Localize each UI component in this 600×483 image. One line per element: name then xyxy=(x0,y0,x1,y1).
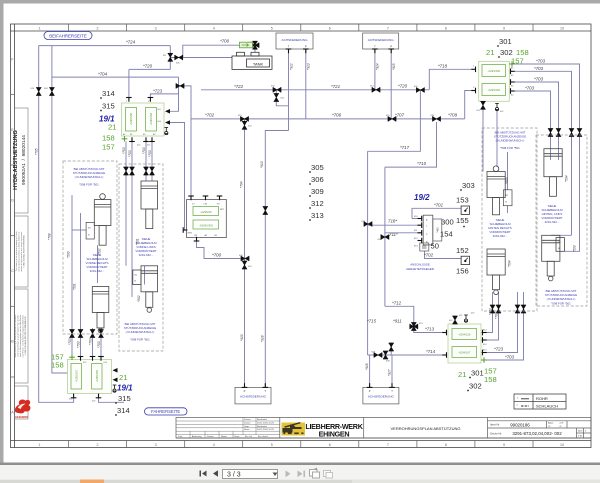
svg-text:*501: *501 xyxy=(73,283,77,290)
svg-text:156: 156 xyxy=(456,267,469,276)
svg-text:1: 1 xyxy=(39,443,41,447)
FAHRERSEITE label xyxy=(145,408,188,415)
label dots xyxy=(100,45,500,416)
title block table xyxy=(176,418,591,439)
valve block V1 top-left (19/1) xyxy=(122,98,171,147)
svg-text:*703: *703 xyxy=(97,341,101,348)
toolbar page combobox xyxy=(223,470,278,479)
fitting 608b on wire 711 xyxy=(381,234,389,239)
svg-text:3291-632...: 3291-632... xyxy=(545,220,560,224)
svg-text:*916: *916 xyxy=(365,363,369,370)
svg-text:4: 4 xyxy=(213,443,215,447)
svg-text:ROHR: ROHR xyxy=(536,396,548,401)
wire 700 mid jog from control block xyxy=(197,241,241,259)
wire 700 top xyxy=(183,45,252,57)
svg-text:300: 300 xyxy=(441,218,454,227)
svg-text:19/2: 19/2 xyxy=(414,193,430,202)
svg-text:BEIFAHRERSEITE: BEIFAHRERSEITE xyxy=(49,33,87,38)
wire 710 xyxy=(385,122,437,167)
wire tank return branch xyxy=(170,57,232,59)
wire 724 top xyxy=(39,45,171,47)
svg-text:718*: 718* xyxy=(388,219,397,224)
wire 711 into valve 19/2 xyxy=(385,232,421,234)
svg-text:303: 303 xyxy=(462,181,475,190)
dashed box LM (schiebeholm vorne links) xyxy=(119,164,163,351)
svg-text:*710: *710 xyxy=(417,161,427,166)
wire box LM inner piping xyxy=(125,183,127,266)
svg-text:*720: *720 xyxy=(398,84,408,89)
svg-text:*912: *912 xyxy=(290,63,294,70)
svg-text:3291-632...: 3291-632... xyxy=(139,253,154,257)
green labels xyxy=(51,48,529,384)
wire 712 xyxy=(385,306,414,322)
wire box B inner piping xyxy=(550,149,552,160)
cross fitting on wire 700 xyxy=(251,41,259,49)
svg-text:-A295/158: -A295/158 xyxy=(149,112,153,125)
svg-text:157: 157 xyxy=(511,57,524,66)
rotated wire labels xyxy=(35,63,577,376)
wire box A bottom drops xyxy=(492,292,494,313)
svg-text:9: 9 xyxy=(503,26,505,30)
check valves under box A xyxy=(490,305,495,313)
svg-text:Datum: Datum xyxy=(244,421,251,424)
wire 718 into valve 19/2 xyxy=(368,224,421,226)
wire 723 valve 19/3 B2 xyxy=(481,305,518,353)
check valves row 1 above valve V2 xyxy=(69,330,74,338)
svg-text:Abge.: Abge. xyxy=(548,422,554,425)
svg-text:7: 7 xyxy=(387,26,389,30)
wire stub check valve x391 xyxy=(390,343,392,356)
svg-text:SCHLAUCH: SCHLAUCH xyxy=(536,404,558,409)
svg-text:21: 21 xyxy=(119,373,127,382)
svg-text:+US: +US xyxy=(559,423,564,425)
TANK xyxy=(232,52,272,69)
svg-text:-A294/167: -A294/167 xyxy=(458,351,471,355)
svg-text:*504: *504 xyxy=(565,175,569,182)
fitting 698 on wire 718 xyxy=(364,221,372,226)
wire valve 19/4 B1 right xyxy=(515,71,572,148)
svg-text:3 / 3: 3 / 3 xyxy=(227,472,241,479)
svg-text:Ers. durch: Ers. durch xyxy=(258,435,269,438)
svg-text:155: 155 xyxy=(456,216,469,225)
svg-text:158: 158 xyxy=(102,134,115,143)
cylinder box L lower xyxy=(92,287,109,333)
legend box rohr/schlauch xyxy=(514,394,566,409)
ACHSFEDERUNG box D bottom-right xyxy=(363,383,399,404)
valve block V2 bottom-left (19/1) xyxy=(68,354,118,402)
svg-text:*703: *703 xyxy=(77,341,81,348)
svg-text:*504: *504 xyxy=(508,260,512,267)
svg-text:3291-632...: 3291-632... xyxy=(493,234,508,238)
svg-text:*703: *703 xyxy=(128,150,132,157)
check valve on tank branch xyxy=(175,55,183,60)
svg-text:305: 305 xyxy=(311,163,324,172)
wire valve V1 bottom drops xyxy=(125,142,127,184)
svg-text:P: P xyxy=(369,389,371,393)
wire 709 riser to port P xyxy=(465,91,472,119)
left column fine print box 2 xyxy=(14,314,27,357)
wire port T drop valve V1 xyxy=(128,69,130,97)
svg-text:*598 FÜR *501: *598 FÜR *501 xyxy=(551,302,571,306)
svg-text:Name: Name xyxy=(221,436,228,438)
svg-text:*703: *703 xyxy=(534,77,544,82)
wire 704 drop to valve V1 right side xyxy=(170,77,179,111)
svg-text:*703: *703 xyxy=(525,86,535,91)
svg-text:LIEBHERR: LIEBHERR xyxy=(15,415,28,419)
svg-text:Datum: Datum xyxy=(244,418,251,421)
svg-text:ACHSFEDERUNG: ACHSFEDERUNG xyxy=(368,38,395,42)
svg-text:GERAETETRAEGER: GERAETETRAEGER xyxy=(406,267,434,271)
svg-text:ANSCHLÜSSE: ANSCHLÜSSE xyxy=(410,263,430,267)
fitting pair on wire 700 mid xyxy=(241,256,249,261)
svg-text:990052A1 / 98020144: 990052A1 / 98020144 xyxy=(21,135,27,185)
wire valve V2 bottom stubs xyxy=(99,394,125,403)
wire valve 19/3 B1 xyxy=(481,305,499,340)
wire 920 main vertical xyxy=(244,119,246,388)
wire valve 19/4 A2 right xyxy=(515,91,551,149)
wire 720 left xyxy=(129,68,170,70)
svg-text:6: 6 xyxy=(329,26,331,30)
check valve left inner xyxy=(49,88,54,96)
svg-text:Zeichn-Nr.: Zeichn-Nr. xyxy=(490,431,502,435)
left column title HYDR.ABSTUETZUNG xyxy=(13,130,27,190)
wire 714 line xyxy=(368,354,444,356)
svg-text:158: 158 xyxy=(51,361,64,370)
svg-text:21: 21 xyxy=(486,48,494,57)
toolbar background xyxy=(0,465,600,480)
svg-text:*700: *700 xyxy=(212,253,222,258)
svg-text:3291-873,02,04,002- 002: 3291-873,02,04,002- 002 xyxy=(512,431,562,436)
svg-text:*703: *703 xyxy=(505,355,515,360)
blue annotation box B bottom xyxy=(545,289,577,306)
wire 713 xyxy=(414,331,444,333)
svg-text:Datum: Datum xyxy=(207,435,214,438)
cylinder box B lower xyxy=(542,235,565,281)
wire valve 19/4 bottom drops xyxy=(482,102,484,172)
cylinder box B upper xyxy=(544,149,562,197)
valve 19/2 block xyxy=(414,215,442,247)
wire valve 19/4 B2 right xyxy=(515,82,559,149)
svg-text:301: 301 xyxy=(471,369,484,378)
dashed box A (stützdruckanzeige hinten rechts) xyxy=(482,128,537,311)
ACHSFEDERUNG box B top-right xyxy=(363,33,399,53)
wire box L inner piping xyxy=(71,195,73,360)
wire 912 jog to check valves xyxy=(276,90,288,106)
svg-text:*502: *502 xyxy=(137,295,141,302)
blue bold valve group labels xyxy=(99,115,430,393)
gauge G1 (153/155) xyxy=(461,206,469,214)
svg-text:© LWE 2010 ALL RIGHTS RESERVED: © LWE 2010 ALL RIGHTS RESERVED xyxy=(23,234,26,268)
svg-text:*703: *703 xyxy=(122,147,126,154)
dashed box L (stützdruckanzeige vorne rechts) xyxy=(63,161,117,334)
viewer chrome left strip xyxy=(0,0,4,463)
svg-text:*703: *703 xyxy=(495,312,499,319)
fitting 614 on wire 721 xyxy=(372,87,380,92)
svg-text:3 Bl.: 3 Bl. xyxy=(578,436,583,438)
svg-text:Ident-Nr.: Ident-Nr. xyxy=(490,423,500,427)
fitting 620 on wire 720 xyxy=(417,87,425,92)
svg-text:*703: *703 xyxy=(142,147,146,154)
svg-text:*503: *503 xyxy=(573,245,577,252)
fitting 601 below 600 xyxy=(274,94,279,102)
green hose component on wire 700 xyxy=(240,42,253,48)
svg-text:Urspr.: Urspr. xyxy=(234,435,240,438)
control block U1 middle xyxy=(183,196,226,241)
wire fitting to control block drop xyxy=(183,86,191,198)
svg-text:1: 1 xyxy=(39,26,41,30)
svg-text:*709: *709 xyxy=(448,113,458,118)
scrollbar track xyxy=(0,480,352,483)
svg-text:309: 309 xyxy=(311,187,324,196)
svg-text:306: 306 xyxy=(311,175,324,184)
svg-text:© LWE 2010 ALLE RECHTE VORBEHA: © LWE 2010 ALLE RECHTE VORBEHALTEN xyxy=(24,316,27,355)
svg-text:P: P xyxy=(305,45,307,49)
wire 718 riser xyxy=(429,69,471,90)
wire cross to tank xyxy=(254,45,256,52)
svg-text:*703: *703 xyxy=(489,308,493,315)
svg-text:Bearbeitet: Bearbeitet xyxy=(257,425,267,428)
left column fine print box 1 xyxy=(15,231,26,272)
wire 703 valve 19/3 A2 xyxy=(481,305,524,360)
svg-text:99020186: 99020186 xyxy=(510,422,530,427)
svg-text:Norm: Norm xyxy=(244,428,250,431)
svg-text:*715: *715 xyxy=(367,319,377,324)
wire 913 drop xyxy=(305,49,307,119)
svg-text:*703: *703 xyxy=(89,338,93,345)
blue annotation siehe vorne rechts xyxy=(86,253,109,273)
svg-text:315: 315 xyxy=(102,102,115,111)
svg-text:-A294/160: -A294/160 xyxy=(488,69,501,73)
wire 915 drop xyxy=(390,49,392,119)
svg-text:301: 301 xyxy=(499,37,512,46)
svg-text:314: 314 xyxy=(117,406,130,415)
svg-text:*705: *705 xyxy=(35,148,39,155)
svg-text:*918: *918 xyxy=(261,335,265,342)
toolbar icon snapshot 2 (disabled) xyxy=(324,471,333,479)
svg-text:3291-632...: 3291-632... xyxy=(90,269,105,273)
svg-text:*913: *913 xyxy=(260,161,264,168)
svg-text:*721: *721 xyxy=(331,84,341,89)
wire left outer vertical xyxy=(39,46,74,403)
svg-text:04.11.2010 10:26: 04.11.2010 10:26 xyxy=(257,422,275,424)
svg-text:313: 313 xyxy=(311,211,324,220)
svg-text:*598 FÜR *501: *598 FÜR *501 xyxy=(500,146,520,150)
svg-text:3: 3 xyxy=(155,26,157,30)
svg-text:*701: *701 xyxy=(434,203,444,208)
svg-text:*915: *915 xyxy=(392,63,396,70)
cylinder box A pressure box xyxy=(503,190,512,206)
toolbar button first-page xyxy=(200,470,219,477)
svg-text:*714: *714 xyxy=(426,349,436,354)
svg-text:C: C xyxy=(11,269,14,273)
svg-text:FAHRERSEITE: FAHRERSEITE xyxy=(151,409,180,414)
wire 702 706 707 709 long line xyxy=(191,118,465,120)
fitting pair on wire 714 xyxy=(374,352,382,357)
svg-text:*702: *702 xyxy=(424,253,434,258)
svg-text:*913: *913 xyxy=(307,63,311,70)
title block revision table xyxy=(176,418,280,439)
wire left inner vertical xyxy=(52,46,68,373)
wire 914 drop xyxy=(374,49,376,90)
svg-text:7: 7 xyxy=(387,443,389,447)
svg-text:*707: *707 xyxy=(395,113,405,118)
svg-text:*703: *703 xyxy=(534,66,544,71)
svg-text:*723: *723 xyxy=(153,89,163,94)
blue annotation siehe vorne links xyxy=(135,237,157,257)
svg-text:P: P xyxy=(390,45,392,49)
gauge G2 (152/156) xyxy=(461,256,469,264)
page shadow bottom xyxy=(0,463,600,466)
svg-text:*703: *703 xyxy=(148,150,152,157)
svg-text:158: 158 xyxy=(484,375,497,384)
wire cylinder piping box A xyxy=(507,152,509,190)
svg-text:*720: *720 xyxy=(143,64,153,69)
svg-text:( KUNDENWUNSCH ): ( KUNDENWUNSCH ) xyxy=(75,175,104,179)
cylinder box A lower xyxy=(487,249,505,295)
svg-text:-A295/155: -A295/155 xyxy=(95,369,99,382)
svg-text:ACHSFEDERUNG: ACHSFEDERUNG xyxy=(368,395,395,399)
svg-text:ACHSFEDERUNG: ACHSFEDERUNG xyxy=(282,38,309,42)
frame ruler ticks top and bottom xyxy=(11,24,534,448)
wire valve 19/4 A1 right xyxy=(515,64,580,149)
svg-text:5: 5 xyxy=(271,26,273,30)
svg-text:D: D xyxy=(11,199,14,203)
svg-text:04.11.2010 10:25: 04.11.2010 10:25 xyxy=(257,429,275,431)
svg-text:3: 3 xyxy=(155,443,157,447)
toolbar button next-page (disabled) xyxy=(286,471,291,478)
blue annotation siehe hinten links xyxy=(541,204,563,224)
svg-text:*724: *724 xyxy=(126,40,136,45)
toolbar button last-page (disabled) xyxy=(298,471,306,478)
svg-text:TANK: TANK xyxy=(253,62,264,67)
svg-text:2: 2 xyxy=(97,26,99,30)
wire 918 to achsfederung C xyxy=(265,131,288,388)
svg-text:*920: *920 xyxy=(240,334,244,341)
wire 916 xyxy=(369,355,371,387)
blue annotation box A top xyxy=(494,131,526,151)
fitting 636 on wire 707 xyxy=(433,116,441,121)
svg-text:Gepr.: Gepr. xyxy=(244,425,250,428)
wire 723 jog valve V1 port P xyxy=(150,86,178,98)
svg-text:*722: *722 xyxy=(234,84,244,89)
svg-text:( KUNDENWUNSCH ): ( KUNDENWUNSCH ) xyxy=(496,139,525,143)
check valve on stub x391 xyxy=(389,343,394,351)
fitting 616 below 612 xyxy=(242,121,247,129)
wire junction vertical x170 xyxy=(169,46,171,70)
svg-text:*708: *708 xyxy=(48,233,52,240)
fitting 612 on wire 702 xyxy=(241,116,249,121)
cylinder box LM lower xyxy=(133,266,158,313)
wire 715 vertical xyxy=(367,151,369,355)
wire 704 xyxy=(52,76,179,78)
svg-text:( KUNDENWUNSCH ): ( KUNDENWUNSCH ) xyxy=(547,297,576,301)
svg-text:*718: *718 xyxy=(438,64,448,69)
left info column boxes xyxy=(15,108,29,419)
wire 701 xyxy=(412,218,421,220)
svg-text:*704: *704 xyxy=(98,72,108,77)
svg-text:154: 154 xyxy=(440,230,453,239)
svg-text:312: 312 xyxy=(311,199,324,208)
svg-text:*500: *500 xyxy=(67,251,71,258)
ACHSFEDERUNG box A top-left xyxy=(276,33,313,53)
svg-text:( KUNDENWUNSCH ): ( KUNDENWUNSCH ) xyxy=(126,330,155,334)
wire valve 19/3 A1 xyxy=(481,305,493,333)
svg-text:*702: *702 xyxy=(205,113,215,118)
svg-text:ACHSFEDERUNG: ACHSFEDERUNG xyxy=(240,395,267,399)
ACHSFEDERUNG box C bottom-left xyxy=(235,383,271,404)
Liebherr crane logo xyxy=(282,422,306,436)
BEIFAHRERSEITE label xyxy=(44,32,92,40)
wire valve V1 arrow2 to M93 xyxy=(170,123,187,231)
svg-text:157: 157 xyxy=(102,143,115,152)
component 50 box xyxy=(420,243,429,251)
svg-text:*500: *500 xyxy=(505,177,509,184)
svg-text:302: 302 xyxy=(469,382,482,391)
svg-text:*704: *704 xyxy=(240,181,244,188)
check valve pair on wire 724 junction xyxy=(168,53,173,61)
svg-text:-A294/159: -A294/159 xyxy=(458,333,471,337)
wire 912 drop xyxy=(288,49,290,131)
svg-text:Zust: Zust xyxy=(178,435,183,438)
svg-text:VERROHRUNGSPLAN ABSTÜTZUNG: VERROHRUNGSPLAN ABSTÜTZUNG xyxy=(390,426,460,431)
valve block V3 bottom-right (21) xyxy=(442,313,487,364)
toolbar button prev-page xyxy=(213,470,218,477)
cross fitting on wire 911 xyxy=(410,323,418,331)
svg-text:Ers. für: Ers. für xyxy=(245,435,252,438)
wire name labels xyxy=(98,39,546,360)
svg-text:*706: *706 xyxy=(332,113,342,118)
fitting 615 on wire 706 xyxy=(388,116,396,121)
wire 702 bottom to gauge xyxy=(425,251,461,259)
toolbar icon snapshot 1 xyxy=(310,470,320,479)
svg-text:P: P xyxy=(244,389,246,393)
big component number labels xyxy=(102,37,513,415)
cylinder box A upper xyxy=(487,166,505,215)
svg-text:*713: *713 xyxy=(425,327,435,332)
check valve fitting 608 xyxy=(176,83,184,88)
cylinder box LM upper xyxy=(141,181,158,229)
svg-text:Änderung: Änderung xyxy=(192,435,202,438)
svg-text:*703: *703 xyxy=(536,59,546,64)
fitting 600 on wire 722 xyxy=(273,87,281,92)
svg-text:*703: *703 xyxy=(68,338,72,345)
fitting labels xyxy=(31,42,435,363)
wire 917 xyxy=(391,355,393,387)
svg-text:50: 50 xyxy=(431,242,439,251)
svg-text:5: 5 xyxy=(271,443,273,447)
svg-text:8: 8 xyxy=(445,26,447,30)
svg-text:10: 10 xyxy=(560,443,564,447)
scrollbar orange thumb xyxy=(80,480,104,483)
svg-text:*598 FÜR *501: *598 FÜR *501 xyxy=(79,183,99,187)
svg-text:*723: *723 xyxy=(494,347,504,352)
svg-text:*917: *917 xyxy=(388,369,392,376)
svg-text:9: 9 xyxy=(503,443,505,447)
svg-text:-A294/162: -A294/162 xyxy=(488,88,501,92)
svg-text:711*: 711* xyxy=(389,232,398,237)
svg-text:HYDR.ABSTUETZUNG: HYDR.ABSTUETZUNG xyxy=(13,130,19,190)
svg-text:*914: *914 xyxy=(376,63,380,70)
wire 711 vertical xyxy=(384,167,386,306)
cylinder box L pressure box xyxy=(86,222,94,239)
svg-text:314: 314 xyxy=(102,89,115,98)
wire 722 721 720 long line xyxy=(201,89,429,91)
dashed box B (schiebeholm hinten links) xyxy=(536,135,587,306)
check valves above box B xyxy=(548,129,553,137)
valve block V4 top-right (21) xyxy=(471,61,515,113)
check valve left outer xyxy=(36,88,41,96)
blue annotation box LM bottom xyxy=(124,322,156,342)
